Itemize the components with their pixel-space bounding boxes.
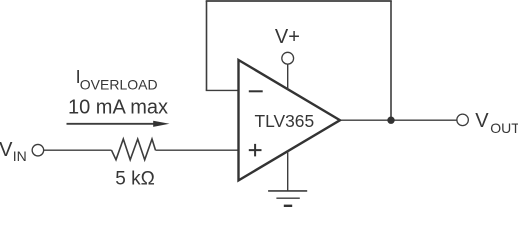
resistor R1 5 kOhm zigzag [112,139,156,160]
svg-text:10 mA max: 10 mA max [68,97,168,119]
terminal VIN (open circle) [32,144,44,156]
svg-text:V: V [475,110,489,132]
wire: feedback left vertical from inverting input up [206,1,208,90]
svg-text:TLV365: TLV365 [255,111,315,131]
svg-text:V+: V+ [275,26,300,48]
svg-text:5 kΩ: 5 kΩ [115,169,155,190]
terminal V+ (open circle) [282,52,294,64]
ground symbol bar 3 (clipped at image bottom) [284,205,292,208]
wire: V+ supply to op-amp top edge [287,64,289,90]
wire: feedback top horizontal [206,0,392,2]
svg-text:IN: IN [13,148,27,164]
ground symbol bar 2 [276,197,299,199]
wire: op-amp output to VOUT terminal [341,119,457,121]
svg-text:V: V [0,139,13,161]
op-amp non-inverting input marker (plus) [249,144,262,157]
wire: op-amp bottom edge to ground [287,150,289,191]
wire: inverting input horizontal [206,89,239,91]
junction node dot at feedback tap [387,117,394,124]
ground symbol bar 1 [268,190,307,192]
current direction arrow line [67,123,155,125]
op-amp U1 triangle body [239,60,341,180]
wire: resistor to non-inverting input [156,149,240,151]
op-amp inverting input marker (minus) [249,90,263,92]
wire: input from VIN terminal to resistor [44,149,112,151]
svg-text:OVERLOAD: OVERLOAD [80,77,158,93]
svg-text:OUT: OUT [490,120,518,136]
wire: feedback right vertical down to output node [390,1,392,120]
current direction arrow head [153,121,169,127]
terminal VOUT (open circle) [457,114,469,126]
